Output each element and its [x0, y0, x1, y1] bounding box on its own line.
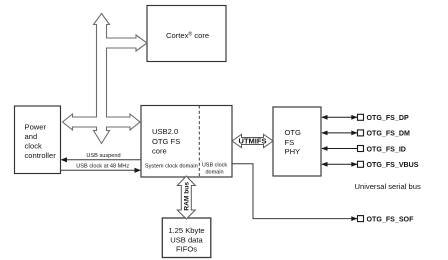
svg-text:FS: FS — [285, 138, 295, 147]
svg-text:domain: domain — [205, 169, 223, 175]
hollow arrow RAM bus — [177, 176, 195, 219]
wire OTG_FS_DP — [321, 114, 409, 122]
wire OTG_FS_ID — [321, 145, 406, 153]
block USB2.0 OTG FS core — [141, 106, 232, 178]
clock domain divider (dashed) — [198, 106, 200, 178]
svg-text:Cortex® core: Cortex® core — [166, 31, 209, 41]
svg-text:OTG_FS_SOF: OTG_FS_SOF — [367, 215, 415, 223]
svg-text:OTG_FS_DP: OTG_FS_DP — [367, 114, 409, 122]
block OTG FS PHY — [273, 107, 321, 176]
svg-text:1.25 Kbyte: 1.25 Kbyte — [168, 226, 204, 235]
svg-text:controller: controller — [25, 151, 57, 160]
svg-text:FIFOs: FIFOs — [176, 245, 197, 254]
wire OTG_FS_SOF — [232, 164, 414, 224]
hollow bus arrow cross (up / to Cortex / Power-USB core / down) — [63, 14, 148, 144]
wire OTG_FS_VBUS — [321, 161, 419, 169]
svg-text:USB clock: USB clock — [202, 162, 228, 168]
svg-text:OTG FS: OTG FS — [152, 137, 180, 146]
block 1.25 Kbyte USB data FIFOs — [162, 218, 211, 258]
svg-text:OTG_FS_VBUS: OTG_FS_VBUS — [367, 161, 419, 169]
svg-text:OTG_FS_DM: OTG_FS_DM — [367, 130, 410, 138]
svg-text:USB suspend: USB suspend — [86, 153, 120, 159]
svg-text:clock: clock — [25, 142, 43, 151]
svg-text:core: core — [152, 146, 167, 155]
svg-text:UTMIFS: UTMIFS — [239, 137, 267, 146]
wire USB clock at 48 MHz — [61, 164, 142, 173]
wire USB suspend — [61, 153, 142, 162]
svg-text:USB data: USB data — [170, 235, 203, 244]
block Power and clock controller — [15, 106, 61, 174]
svg-text:OTG: OTG — [285, 128, 302, 137]
svg-text:RAM bus: RAM bus — [183, 182, 190, 211]
svg-text:USB clock at 48 MHz: USB clock at 48 MHz — [76, 164, 129, 170]
hollow arrow UTMIFS — [232, 134, 273, 147]
svg-text:PHY: PHY — [285, 147, 301, 156]
block Cortex core — [147, 6, 226, 62]
svg-text:Power: Power — [25, 123, 47, 132]
wire OTG_FS_DM — [321, 130, 410, 138]
svg-text:Universal serial bus: Universal serial bus — [355, 182, 421, 191]
svg-text:and: and — [25, 132, 38, 141]
svg-text:OTG_FS_ID: OTG_FS_ID — [367, 145, 406, 153]
svg-text:USB2.0: USB2.0 — [152, 127, 178, 136]
svg-text:System clock domain: System clock domain — [145, 164, 198, 170]
